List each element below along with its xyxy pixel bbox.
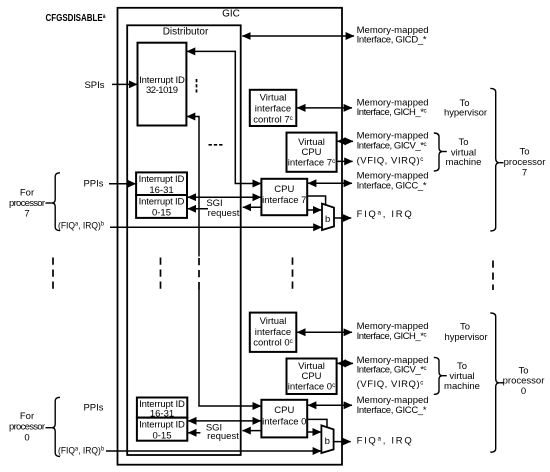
- svg-text:16-31: 16-31: [149, 185, 173, 196]
- svg-text:0-15: 0-15: [152, 207, 171, 218]
- svg-text:32-1019: 32-1019: [146, 85, 178, 96]
- svg-text:hypervisor: hypervisor: [445, 332, 488, 343]
- svg-text:CFGSDISABLEa: CFGSDISABLEa: [46, 13, 106, 24]
- svg-text:interface 0c: interface 0c: [288, 382, 336, 393]
- svg-text:Interrupt ID: Interrupt ID: [139, 196, 185, 207]
- svg-text:(VFIQ, VIRQ)c: (VFIQ, VIRQ)c: [357, 379, 424, 390]
- svg-text:processor: processor: [9, 198, 45, 209]
- svg-text:CPU: CPU: [274, 405, 294, 416]
- svg-text:machine: machine: [446, 157, 482, 168]
- svg-text:To: To: [460, 322, 470, 333]
- svg-text:hypervisor: hypervisor: [444, 108, 487, 119]
- svg-text:CPU: CPU: [274, 184, 294, 195]
- svg-text:control 7c: control 7c: [253, 114, 293, 125]
- svg-text:processor: processor: [504, 157, 546, 168]
- svg-text:Virtual: Virtual: [298, 361, 325, 372]
- svg-text:16-31: 16-31: [150, 409, 174, 420]
- svg-text:interface: interface: [255, 327, 291, 338]
- svg-text:SPIs: SPIs: [84, 80, 104, 91]
- svg-text:GIC: GIC: [222, 8, 240, 19]
- svg-text:FIQa, IRQ: FIQa, IRQ: [357, 209, 414, 220]
- svg-text:0-15: 0-15: [152, 430, 171, 441]
- svg-text:Virtual: Virtual: [260, 316, 287, 327]
- svg-text:To: To: [519, 146, 529, 157]
- svg-text:Interface, GICV_*c: Interface, GICV_*c: [357, 140, 427, 151]
- svg-text:Interface, GICH_*c: Interface, GICH_*c: [357, 107, 427, 118]
- svg-text:Interface, GICC_*: Interface, GICC_*: [357, 180, 427, 191]
- svg-text:control 0c: control 0c: [253, 338, 293, 349]
- svg-text:Distributor: Distributor: [163, 27, 209, 38]
- svg-text:interface 7: interface 7: [262, 195, 306, 206]
- svg-text:b: b: [325, 214, 330, 225]
- svg-text:processor: processor: [503, 376, 545, 387]
- svg-text:0: 0: [24, 432, 29, 443]
- svg-text:(FIQa, IRQ)b: (FIQa, IRQ)b: [58, 445, 104, 456]
- svg-text:PPIs: PPIs: [83, 403, 103, 414]
- svg-text:FIQa, IRQ: FIQa, IRQ: [357, 436, 414, 447]
- svg-text:(VFIQ, VIRQ)c: (VFIQ, VIRQ)c: [357, 156, 424, 167]
- svg-text:machine: machine: [444, 381, 480, 392]
- svg-text:Interface, GICV_*c: Interface, GICV_*c: [357, 365, 427, 376]
- svg-text:request: request: [208, 208, 240, 219]
- svg-text:b: b: [325, 436, 330, 447]
- svg-text:To: To: [457, 361, 467, 372]
- svg-text:PPIs: PPIs: [83, 179, 103, 190]
- svg-text:request: request: [207, 431, 239, 442]
- svg-text:Interrupt ID: Interrupt ID: [139, 419, 185, 430]
- svg-text:(FIQa, IRQ)b: (FIQa, IRQ)b: [58, 221, 104, 232]
- svg-text:processor: processor: [9, 422, 45, 433]
- svg-text:Interface, GICH_*c: Interface, GICH_*c: [357, 331, 427, 342]
- svg-text:interface: interface: [255, 104, 291, 115]
- svg-text:interface 0: interface 0: [262, 417, 306, 428]
- svg-text:Interrupt ID: Interrupt ID: [139, 174, 185, 185]
- svg-text:CPU: CPU: [301, 147, 321, 158]
- svg-text:interface 7c: interface 7c: [288, 158, 336, 169]
- svg-text:0: 0: [521, 386, 526, 397]
- svg-text:Virtual: Virtual: [260, 93, 287, 104]
- svg-text:Interface, GICD_*: Interface, GICD_*: [357, 35, 427, 46]
- svg-text:7: 7: [24, 209, 29, 220]
- svg-text:Interface, GICC_*: Interface, GICC_*: [357, 405, 427, 416]
- svg-text:7: 7: [522, 168, 527, 179]
